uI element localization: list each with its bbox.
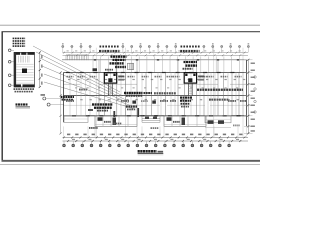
stair core B [184, 73, 196, 83]
partial mid wall [64, 83, 81, 85]
far right long text string [197, 89, 199, 91]
top axis bubbles row [62, 45, 64, 47]
dense axis text zone A [100, 46, 102, 48]
room label row upper [67, 76, 69, 78]
detail axis bubble leader 1 [43, 97, 46, 100]
detail small note right [41, 94, 46, 96]
entry steps center [142, 117, 160, 119]
main bottom wall [64, 115, 247, 117]
lower balcony group B [164, 116, 206, 127]
detail title underline [16, 106, 31, 108]
detail axis bubble leader 2 [47, 103, 50, 106]
frame bottom border dark edge [2, 159, 261, 161]
frame top border [2, 31, 261, 33]
bottom axis stems [63, 141, 65, 144]
bottom dimension line 1 [63, 136, 249, 138]
bottom axis bubbles row [63, 144, 66, 147]
left end label text [61, 96, 63, 98]
detail center wall blob [22, 69, 27, 74]
bottom dimension text specks 2 [72, 139, 75, 140]
detail axis bubbles [8, 49, 11, 52]
detail left wall band [14, 52, 16, 87]
stair core A flight [108, 83, 110, 95]
balcony label specks [104, 121, 106, 123]
bay dim text specks upper [68, 79, 70, 80]
dense axis text zone B [181, 46, 183, 48]
stair text cluster right [180, 97, 182, 99]
left dim vertical line [60, 73, 62, 134]
long axis gridlines [95, 48, 97, 137]
detail outer wall [14, 52, 35, 87]
right porch dark marks [208, 120, 214, 124]
top dimension line 1 [63, 52, 249, 54]
right dim vertical line [247, 60, 249, 134]
hatch block right of core A [128, 63, 134, 69]
detail note text block [13, 38, 15, 40]
frame bottom border [2, 160, 261, 162]
top axis number specks [62, 43, 64, 44]
mid right text string [154, 92, 156, 94]
text right of core B [198, 76, 204, 78]
detail top wall band [14, 52, 20, 55]
detail dim text vertical [41, 55, 42, 58]
bottom wall window segments [72, 115, 76, 116]
text right of core A [118, 76, 124, 78]
bay dim text specks mid [75, 87, 77, 88]
building left edge [63, 73, 65, 123]
detail landing lines [16, 63, 33, 65]
detail bottom text rows [14, 88, 16, 90]
stair text cluster left [92, 103, 94, 105]
top balcony line [62, 59, 247, 61]
sheet top edge line [0, 24, 260, 26]
main middle wall [64, 95, 247, 97]
bottom dimension line 2 [63, 140, 249, 142]
bay dim text specks lower [71, 99, 73, 100]
note text above core A [111, 56, 113, 58]
lower balcony group A [95, 116, 137, 127]
balcony extension verticals [63, 126, 65, 136]
right dim text [251, 63, 255, 65]
lower right porch [205, 116, 231, 123]
right dim ticks [244, 59, 253, 61]
frame left border [1, 32, 3, 162]
dimension comb left [66, 54, 89, 56]
interior partitions minor [69, 73, 71, 116]
plan title text [138, 150, 140, 153]
extended partitions into balcony strip [98, 60, 100, 73]
detail dim line right [39, 52, 41, 87]
main top wall [64, 72, 247, 74]
top balcony dividers [92, 56, 94, 72]
note text above core B [184, 61, 186, 63]
wall end bars center [113, 111, 115, 117]
central dim string [124, 92, 126, 94]
upper small row left [79, 89, 81, 91]
top wall window segments [66, 72, 70, 73]
center-left note block [126, 106, 128, 108]
bottom dimension text specks 1 [67, 134, 70, 136]
right axis bubbles [254, 76, 256, 78]
sheet bottom edge line [0, 164, 260, 166]
right lower text string [209, 99, 211, 101]
detail title text [16, 103, 18, 105]
interior partitions major [98, 73, 100, 116]
plan title underline [138, 152, 164, 154]
lower left porch [64, 116, 88, 123]
small mark near left edge lower [88, 109, 93, 111]
left dim ticks [60, 72, 62, 74]
detail stair treads [18, 56, 20, 63]
entry door marks [145, 117, 149, 119]
balcony line window nubs [94, 59, 96, 61]
top dim number specks [67, 50, 69, 51]
lower room text row [66, 100, 68, 102]
leader fan lines [33, 46, 120, 92]
stair core B flight [188, 83, 190, 95]
detail bottom wall band [14, 84, 21, 87]
right porch front line [205, 126, 231, 128]
stair core A [104, 73, 116, 83]
building right edge [246, 60, 248, 127]
top dimension line 2 [63, 54, 249, 56]
mark near axis 95 [93, 68, 98, 71]
right balcony label specks [233, 125, 235, 127]
lower center bay text [141, 100, 143, 102]
partial lower wall [64, 104, 96, 106]
lower room cross marks [132, 101, 136, 104]
